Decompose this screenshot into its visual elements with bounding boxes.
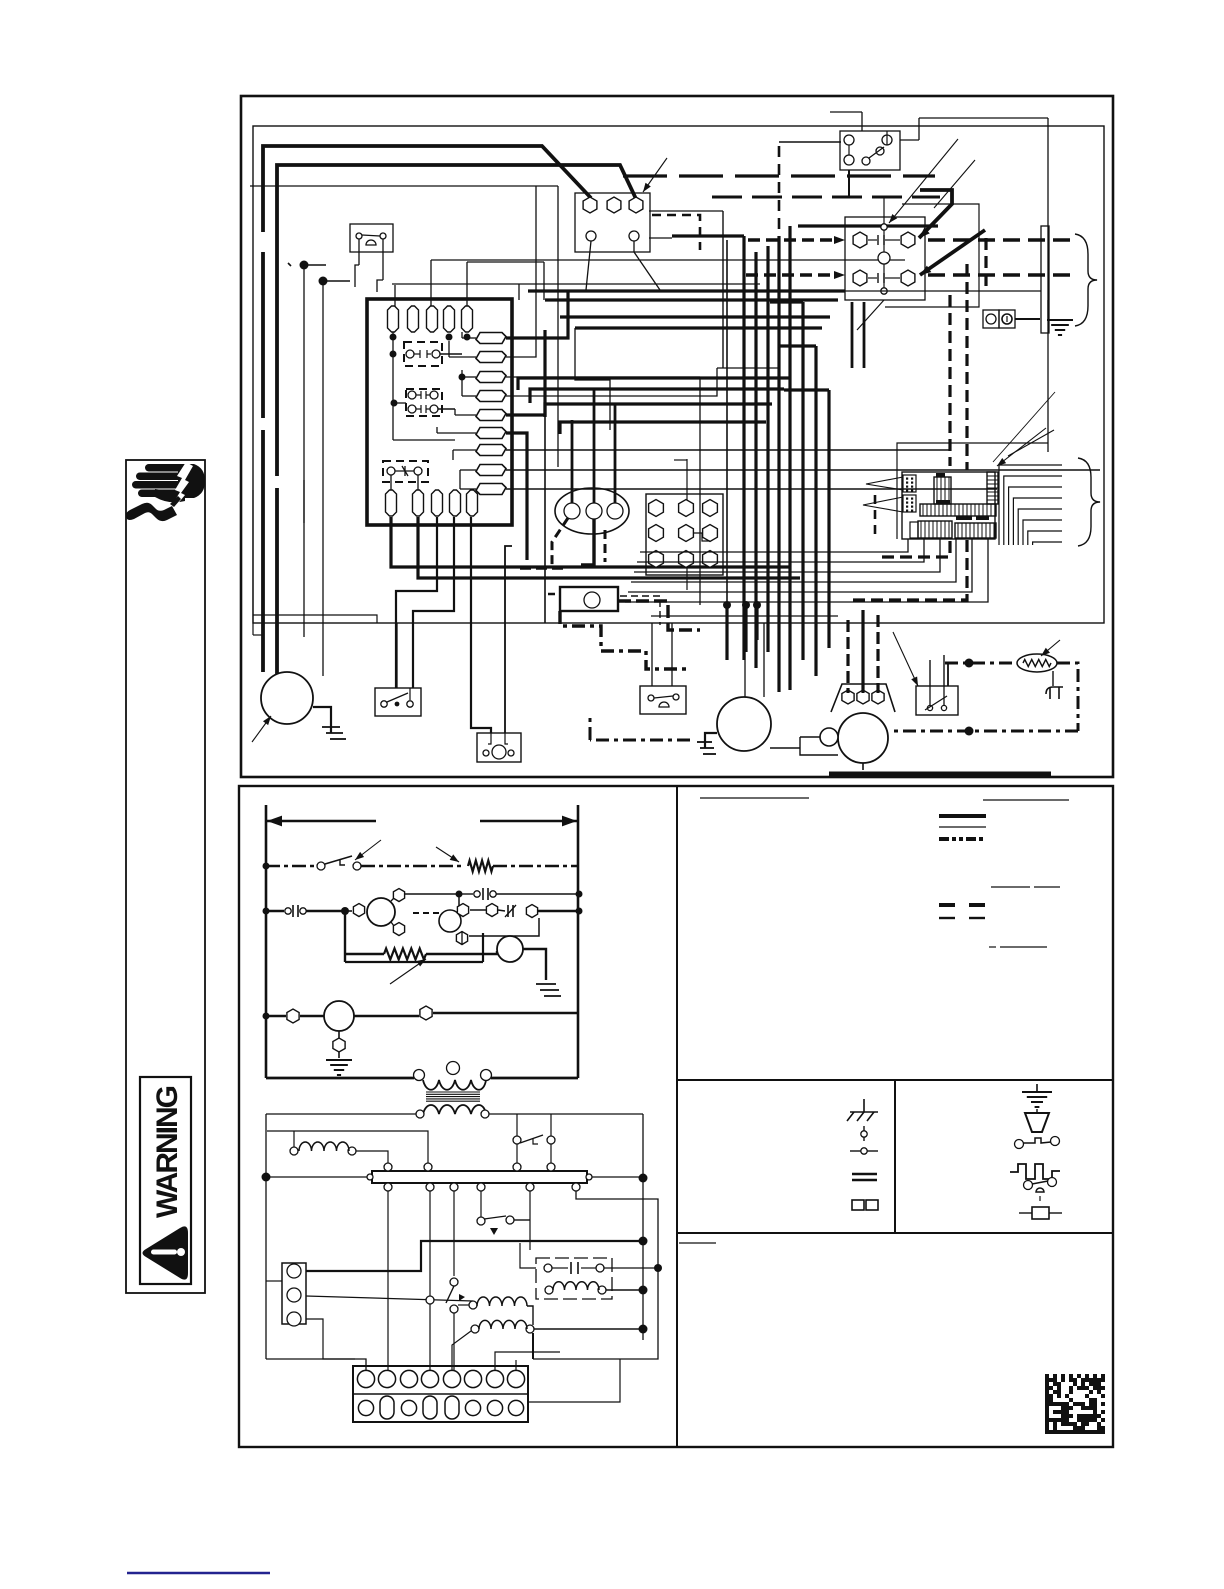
svg-text:WARNING: WARNING	[151, 1086, 184, 1218]
